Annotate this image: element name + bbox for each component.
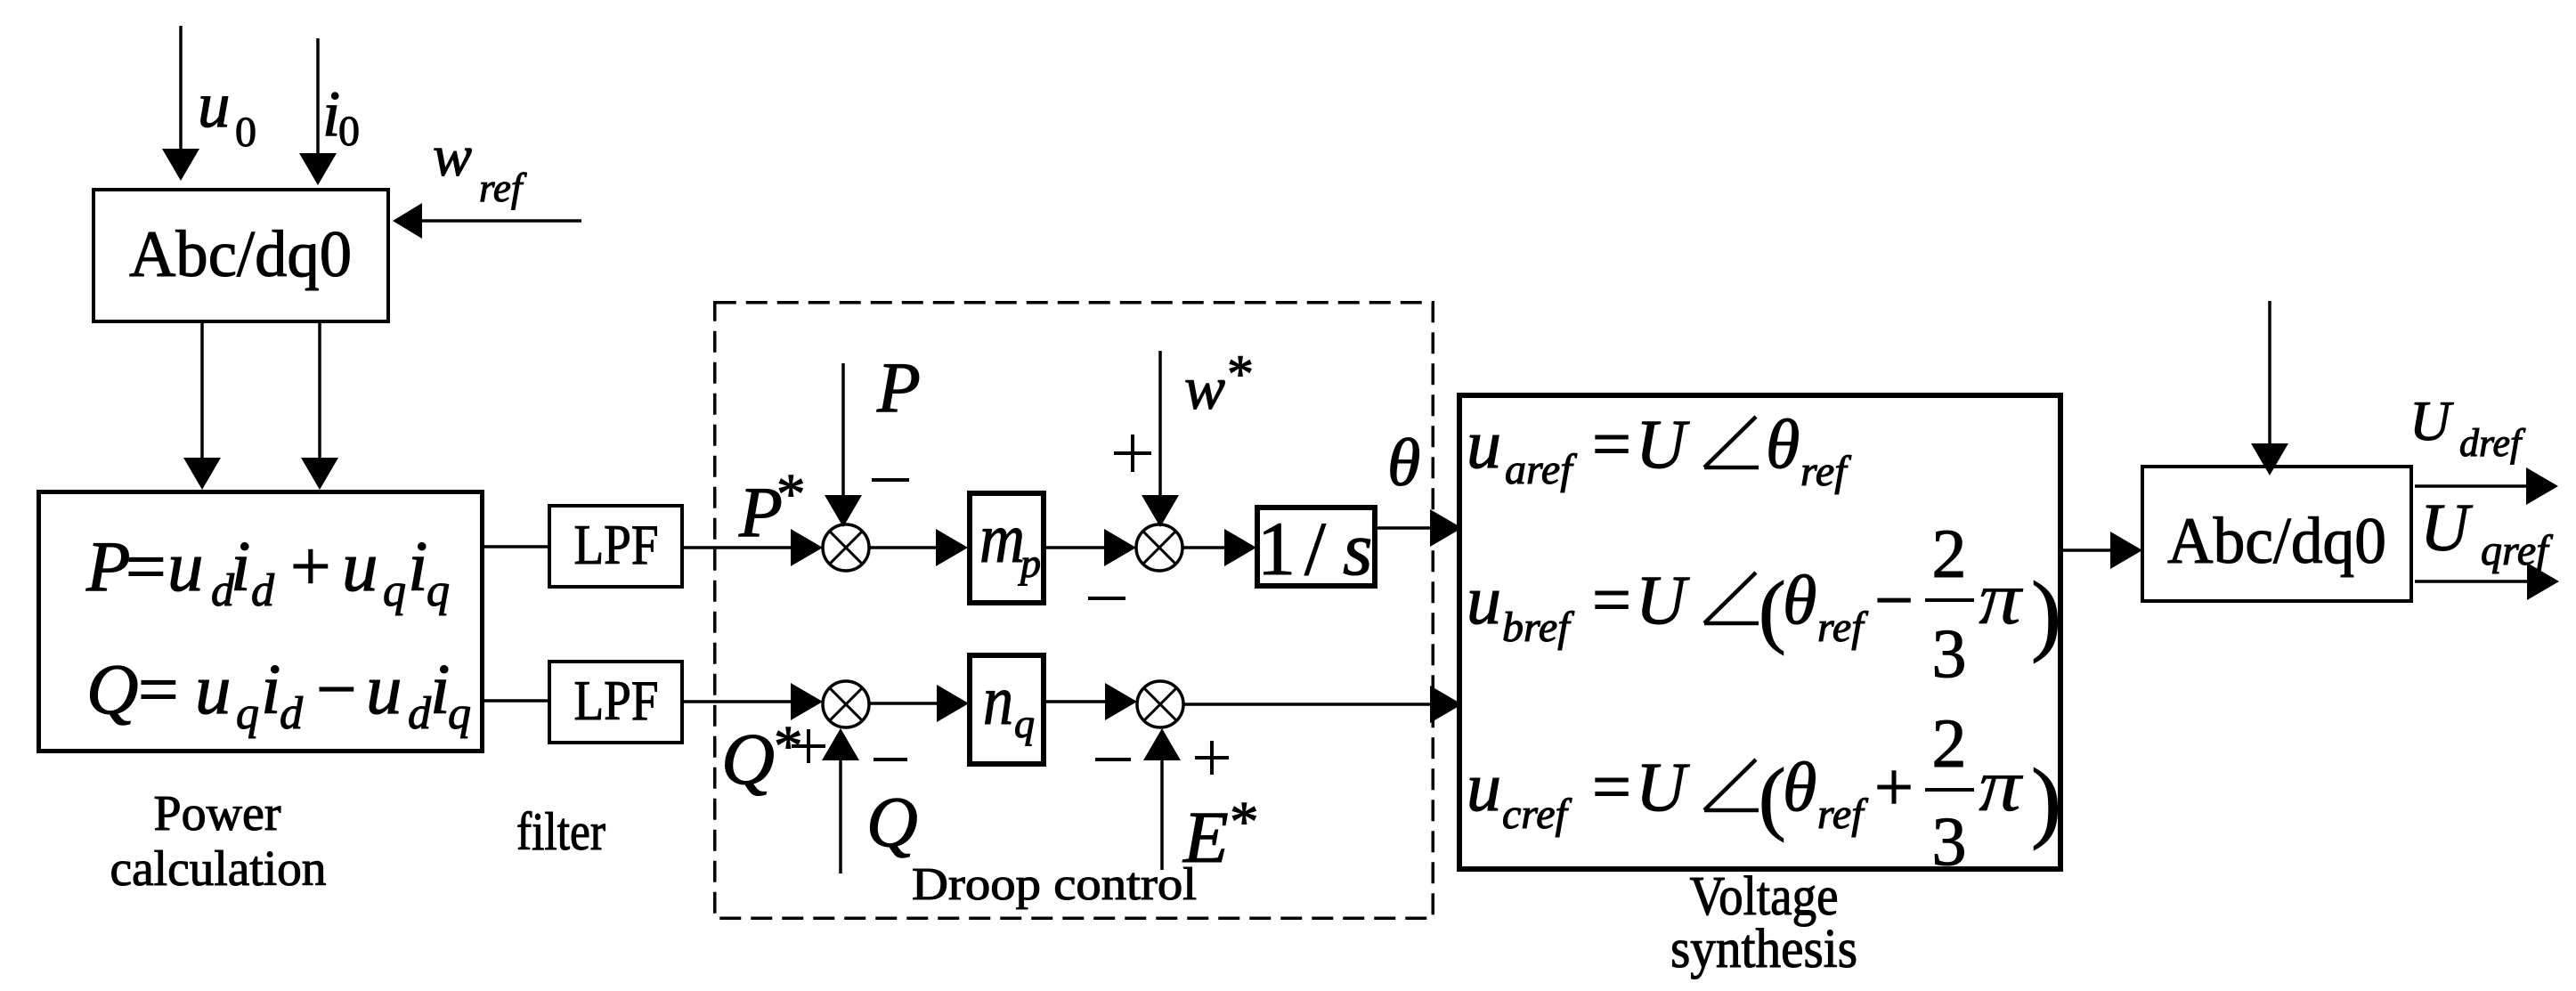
svg-text:q: q [448,688,471,739]
svg-text:*: * [776,462,806,526]
svg-text:u: u [1467,561,1501,638]
svg-text:p: p [1018,540,1041,586]
svg-text:θ: θ [1783,561,1816,638]
svg-text:cref: cref [1502,791,1572,838]
svg-text:Q: Q [866,784,918,862]
svg-text:−: − [1874,561,1914,638]
svg-text:i: i [261,649,281,729]
svg-text:q: q [236,688,259,739]
svg-text:u: u [198,69,231,141]
svg-text:Abc/dq0: Abc/dq0 [129,218,352,291]
svg-text:u: u [366,649,402,729]
svg-text:q: q [427,565,450,616]
svg-text:LPF: LPF [574,513,659,576]
svg-text:bref: bref [1502,604,1574,651]
svg-text:1: 1 [1257,506,1296,591]
svg-text:m: m [979,500,1025,578]
svg-text:synthesis: synthesis [1670,919,1857,979]
svg-text:/: / [1304,506,1326,591]
svg-text:θ: θ [1783,748,1816,825]
svg-text:Q: Q [86,649,139,729]
svg-text:*: * [1227,345,1254,403]
svg-text:qref: qref [2481,527,2553,574]
svg-text:u: u [1467,748,1501,825]
svg-text:+: + [290,526,331,606]
svg-text:π: π [1979,556,2024,640]
svg-text:2: 2 [1932,704,1967,782]
svg-text:ref: ref [1817,791,1868,838]
svg-text:q: q [1014,701,1035,746]
svg-text:d: d [251,565,275,616]
svg-text:w: w [433,124,472,189]
svg-text:Droop control: Droop control [912,859,1197,910]
svg-text:*: * [1230,790,1259,854]
svg-text:3: 3 [1932,614,1967,692]
svg-text:U: U [1636,748,1690,825]
svg-text:π: π [1979,743,2024,827]
svg-text:n: n [983,662,1013,740]
svg-text:u: u [167,526,204,606]
svg-text:ref: ref [479,166,527,210]
svg-text:d: d [408,688,432,739]
svg-text:i: i [408,526,428,606]
svg-text:ref: ref [1817,604,1868,651]
svg-text:U: U [1636,561,1690,638]
svg-text:q: q [383,565,406,616]
svg-text:U: U [1636,405,1690,483]
svg-text:θ: θ [1766,405,1800,483]
svg-text:−: − [316,649,357,729]
svg-text:u: u [1467,405,1501,483]
svg-text:0: 0 [235,109,256,156]
svg-text:calculation: calculation [110,841,327,897]
svg-text:U: U [2420,491,2473,565]
svg-text:d: d [280,688,304,739]
svg-text:Voltage: Voltage [1690,866,1839,927]
svg-text:u: u [342,526,378,606]
svg-text:=: = [1592,748,1631,825]
svg-text:filter: filter [516,802,605,861]
svg-text:=: = [138,649,179,729]
svg-text:ref: ref [1800,448,1851,495]
svg-text:0: 0 [338,108,360,155]
svg-text:θ: θ [1387,426,1420,500]
svg-text:=: = [126,526,167,606]
svg-text:u: u [195,649,232,729]
svg-text:w: w [1184,354,1225,422]
svg-text:Q: Q [721,718,775,800]
svg-text:+: + [1874,748,1914,825]
svg-text:Power: Power [154,786,281,841]
svg-text:i: i [231,526,251,606]
svg-text:=: = [1592,405,1631,483]
svg-text:): ) [2031,751,2061,851]
svg-text:dref: dref [2459,421,2526,465]
svg-text:=: = [1592,561,1631,638]
svg-text:3: 3 [1932,802,1967,880]
svg-text:): ) [2031,564,2061,664]
svg-text:aref: aref [1505,446,1577,493]
svg-text:U: U [2409,389,2454,452]
svg-text:P: P [876,349,921,427]
svg-text:2: 2 [1932,515,1967,592]
svg-text:s: s [1343,506,1372,591]
svg-text:LPF: LPF [574,669,659,732]
svg-text:Abc/dq0: Abc/dq0 [2167,505,2386,578]
svg-text:E: E [1182,796,1229,878]
svg-text:P: P [85,526,130,606]
